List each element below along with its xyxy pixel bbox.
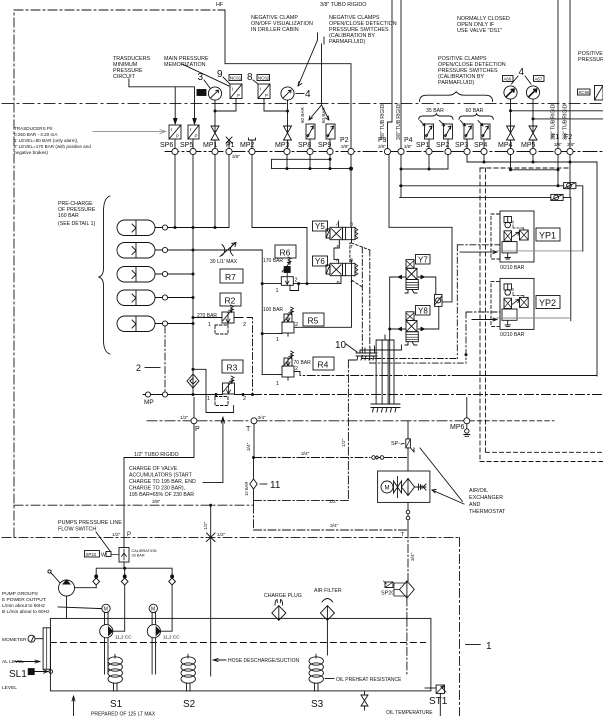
svg-text:PREPARED OF 125 LT MAX: PREPARED OF 125 LT MAX	[91, 712, 156, 716]
junction	[349, 167, 353, 171]
svg-text:3/4": 3/4"	[246, 442, 252, 451]
node crossing X	[207, 533, 216, 542]
svg-text:CHARGE TO 230 BAR),: CHARGE TO 230 BAR),	[129, 486, 185, 492]
node R7 label	[220, 269, 243, 283]
motor M2	[149, 604, 157, 613]
wire YP2 gray through-line	[497, 317, 571, 319]
node Y6 label	[313, 256, 328, 266]
junction	[192, 322, 195, 325]
wire R4 out to right long	[297, 372, 460, 376]
svg-text:SP5: SP5	[180, 142, 193, 149]
wire MP2 drop below	[251, 155, 253, 228]
svg-text:W: W	[101, 553, 106, 559]
wire solid segment to riser	[460, 375, 597, 377]
wire R7 line	[193, 249, 262, 251]
valve MP4 shutoff	[507, 126, 515, 148]
wire Y6 T stub	[351, 276, 353, 280]
svg-text:AIR FILTER: AIR FILTER	[314, 588, 342, 594]
node Y5 label	[313, 221, 328, 231]
svg-text:1: 1	[208, 322, 211, 328]
svg-text:P1: P1	[226, 142, 235, 149]
node tank circle	[49, 670, 53, 674]
svg-text:PUMPS PRESSURE LINE: PUMPS PRESSURE LINE	[58, 520, 122, 526]
node CALIBRATION text	[132, 549, 157, 558]
valve YP2 block	[491, 278, 534, 329]
junction	[174, 226, 177, 229]
svg-text:SP20: SP20	[381, 591, 394, 597]
node SP- component	[406, 439, 411, 448]
wire collector C y169.8	[511, 155, 559, 186]
node MP2 tap	[249, 138, 256, 148]
wire R7 down riser	[261, 250, 263, 375]
junction	[465, 353, 468, 356]
pressure switch SP8	[306, 124, 315, 139]
node PUMP GROUPS text	[2, 591, 50, 615]
wire Y5 P T stubs	[339, 240, 351, 243]
svg-text:R7: R7	[225, 272, 236, 282]
wire riser P3	[388, 0, 393, 148]
svg-text:I: I	[260, 87, 261, 92]
svg-text:Y8: Y8	[418, 306, 428, 315]
node Y6 ports	[336, 258, 353, 287]
svg-text:11: 11	[270, 480, 281, 491]
node MP4	[507, 148, 513, 154]
junction	[388, 328, 391, 331]
wire R2 out dashdot down	[247, 318, 253, 395]
wire leader 2	[145, 367, 160, 369]
wire NEG visualization leaders	[298, 33, 324, 86]
svg-text:S2: S2	[183, 699, 196, 710]
wire leader	[325, 678, 334, 680]
svg-text:I: I	[190, 127, 191, 132]
junction	[242, 393, 245, 396]
wire leader arrow up	[203, 417, 225, 483]
junction	[400, 168, 403, 171]
svg-text:OIL TEMPERATURE: OIL TEMPERATURE	[386, 710, 433, 716]
node CHARGE OF VALVE text	[129, 466, 196, 498]
wire exchanger outlet down	[407, 502, 409, 530]
svg-text:I: I	[171, 127, 172, 132]
junction	[297, 282, 300, 285]
svg-text:P: P	[265, 93, 268, 98]
svg-text:3/8": 3/8"	[404, 144, 412, 149]
charge plug	[272, 600, 286, 621]
svg-text:OIL PREHEAT RESISTANCE: OIL PREHEAT RESISTANCE	[336, 677, 402, 683]
wire MP2 jog	[306, 228, 308, 284]
junction	[261, 282, 264, 285]
svg-text:8: 8	[247, 72, 253, 83]
valve YP1 block	[491, 211, 534, 262]
wire	[578, 51, 603, 63]
wire MP6	[466, 398, 468, 418]
check valve to YP1	[564, 183, 576, 189]
svg-text:SC66: SC66	[579, 90, 591, 95]
svg-text:E POWER OUTPUT:: E POWER OUTPUT:	[2, 597, 47, 603]
wire leader 11	[260, 483, 267, 485]
wire ST1 down	[439, 693, 441, 716]
svg-text:MOMETER: MOMETER	[2, 637, 27, 643]
component tank	[50, 618, 431, 691]
wire SP6 drop below	[174, 155, 176, 228]
pump 2	[147, 613, 180, 640]
svg-text:R4: R4	[318, 360, 329, 370]
air filter	[320, 599, 334, 656]
svg-text:MP6: MP6	[450, 424, 465, 431]
junction	[509, 109, 512, 112]
heater coil S2	[181, 654, 195, 691]
junction	[192, 368, 195, 371]
wire right riser to y376	[596, 162, 598, 376]
svg-text:S3: S3	[311, 699, 324, 710]
svg-text:CALIBRATION: CALIBRATION	[132, 549, 157, 553]
wire pump suctions	[105, 638, 156, 674]
svg-text:FLOW SWITCH: FLOW SWITCH	[58, 527, 96, 533]
wire sp leader	[401, 443, 404, 446]
svg-text:60 BAR: 60 BAR	[300, 106, 305, 123]
wire riser P4	[400, 0, 402, 148]
wire PT line	[147, 420, 464, 422]
transducer right I/P	[595, 86, 603, 101]
node SP1	[426, 148, 432, 154]
svg-text:B L/min about to 60Hz: B L/min about to 60Hz	[2, 609, 50, 615]
wire brace 60	[459, 114, 493, 120]
transducer SP6	[169, 125, 181, 139]
valve Y5	[326, 227, 358, 239]
wire Y5T jog to pilot	[352, 243, 370, 250]
node YP1 label	[536, 228, 560, 241]
port circles on bus	[172, 148, 573, 154]
wire check3 to pump2	[161, 585, 173, 631]
wire dashed detail box outer	[480, 168, 603, 462]
wire leader 9	[223, 77, 230, 84]
wire leader	[15, 660, 40, 663]
wire SP1 SP2 to P4 net	[429, 155, 448, 169]
wire down to exchanger	[408, 448, 414, 471]
wire P drop from above	[124, 398, 194, 548]
motor M1	[102, 604, 110, 613]
svg-text:P: P	[195, 426, 200, 433]
svg-text:1: 1	[276, 381, 279, 387]
wire	[225, 10, 351, 148]
svg-text:L/min about to 50Hz: L/min about to 50Hz	[2, 603, 46, 609]
svg-text:AIR/OIL: AIR/OIL	[469, 488, 488, 494]
node SP8	[307, 148, 313, 154]
wire SP3 SP4 F2 drops below	[467, 155, 570, 198]
svg-text:SP-: SP-	[391, 441, 400, 447]
wire leader 4	[296, 93, 304, 95]
svg-text:33 BAR: 33 BAR	[132, 554, 145, 558]
node P2	[348, 148, 354, 154]
wire	[251, 15, 313, 33]
svg-text:P: P	[337, 280, 340, 286]
svg-text:HOSE DESCHARGE/SUCTION: HOSE DESCHARGE/SUCTION	[228, 658, 300, 664]
svg-text:R3: R3	[227, 363, 238, 373]
svg-text:170 BAR: 170 BAR	[263, 258, 283, 264]
wire brace 35	[419, 114, 453, 120]
relief valve R6	[281, 257, 298, 291]
svg-text:270 BAR: 270 BAR	[197, 313, 217, 319]
svg-text:USE VALVE "DS1": USE VALVE "DS1"	[457, 28, 502, 34]
node SP5	[190, 148, 196, 154]
junction	[400, 184, 403, 187]
wire POSITIVE CLAMPS big brace	[420, 92, 493, 102]
wire SP8 SP9 drops	[310, 139, 330, 148]
transducer NC61 I/P	[230, 84, 242, 99]
wire row1 link	[175, 227, 307, 229]
wire YP2 left pilots	[466, 312, 500, 363]
svg-text:2: 2	[243, 322, 246, 328]
wire split to SP8 SP9	[309, 44, 329, 120]
wire gray leader from TRASDUCERS P/I	[93, 130, 166, 134]
svg-text:60 BAR: 60 BAR	[466, 108, 484, 114]
node R4 label	[313, 357, 334, 370]
node Y7 label	[416, 255, 431, 265]
wire arrowheads	[174, 119, 197, 125]
junction	[251, 393, 254, 396]
wire drain risers to manifold2	[376, 335, 394, 404]
svg-text:1/2": 1/2"	[217, 532, 226, 538]
svg-text:30 L/1' MAX: 30 L/1' MAX	[210, 259, 238, 265]
svg-text:F2: F2	[564, 134, 572, 141]
svg-text:PUMP GROUPS: PUMP GROUPS	[2, 591, 38, 597]
gauge 4	[281, 87, 294, 100]
svg-text:60 BAR: 60 BAR	[321, 106, 326, 123]
svg-text:SP2: SP2	[436, 142, 449, 149]
wire pilot dashdot vertical a	[362, 247, 457, 359]
node R5 label	[303, 313, 324, 326]
svg-text:SP3: SP3	[455, 142, 468, 149]
svg-text:YP1: YP1	[539, 231, 556, 241]
wire	[329, 15, 397, 45]
svg-text:2: 2	[295, 278, 298, 284]
svg-text:3/8" TUBO RIGIDO: 3/8" TUBO RIGIDO	[320, 2, 366, 8]
svg-text:1/2": 1/2"	[180, 415, 189, 421]
svg-text:3/8" TUB RIGIDI: 3/8" TUB RIGIDI	[396, 103, 402, 140]
node R6 label	[275, 245, 296, 258]
svg-text:YP2: YP2	[539, 298, 556, 308]
wire gauge3 drop + link	[215, 99, 236, 127]
junction	[532, 161, 535, 164]
svg-text:3/4": 3/4"	[258, 415, 267, 421]
wire brace	[99, 196, 111, 354]
valve MP5 shutoff	[529, 126, 537, 148]
wire 1/2 drop from manifold area	[254, 360, 357, 501]
wire leader to M	[58, 607, 102, 609]
svg-text:1: 1	[276, 337, 279, 343]
junction	[209, 504, 212, 507]
svg-text:B: B	[350, 222, 353, 228]
wire	[2, 103, 603, 105]
junction	[192, 226, 195, 229]
wire gauge4 drop + NC62 link	[264, 99, 288, 127]
svg-text:160 BAR: 160 BAR	[58, 213, 79, 219]
manifold 2	[371, 404, 400, 412]
wire	[14, 504, 254, 506]
svg-text:IN DRILLER CABIN: IN DRILLER CABIN	[251, 27, 299, 33]
svg-text:I: I	[232, 87, 233, 92]
svg-text:LEVEL: LEVEL	[2, 685, 17, 691]
wire	[459, 537, 461, 716]
wire leader memorization	[182, 64, 229, 86]
svg-text:T: T	[350, 244, 353, 250]
svg-text:3/4": 3/4"	[410, 552, 416, 561]
valve MP3 shutoff	[284, 126, 292, 148]
svg-text:3/8": 3/8"	[378, 144, 386, 149]
wire P4 drop below	[400, 155, 448, 198]
junction	[261, 332, 264, 335]
wire filter to tank	[406, 598, 408, 674]
wire R5 in	[262, 333, 282, 335]
svg-text:1: 1	[276, 288, 279, 294]
svg-text:4: 4	[305, 89, 311, 100]
node R2 label	[220, 293, 241, 306]
node T circle	[251, 418, 257, 424]
svg-text:1: 1	[486, 641, 492, 652]
wire leader 1	[466, 644, 481, 646]
svg-text:3/8": 3/8"	[554, 142, 562, 147]
check valve pump2	[121, 574, 128, 585]
wire R2 in	[193, 317, 214, 319]
svg-text:P2: P2	[340, 137, 349, 144]
port labels	[160, 134, 572, 149]
svg-text:CHARGE OF VALVE: CHARGE OF VALVE	[129, 466, 178, 472]
svg-text:SL1: SL1	[9, 669, 27, 680]
svg-text:AL LEVEL: AL LEVEL	[2, 659, 24, 665]
valve Y8	[398, 312, 425, 345]
svg-text:R5: R5	[308, 316, 319, 326]
wire oil level dashed	[50, 642, 425, 644]
svg-text:A66: A66	[504, 77, 512, 82]
node SP4	[481, 148, 487, 154]
svg-text:M: M	[104, 607, 108, 613]
svg-text:3/8" TUB RIGIDI: 3/8" TUB RIGIDI	[380, 103, 386, 140]
wire dashed top	[480, 167, 570, 169]
node outlet circles	[406, 510, 410, 514]
wire 3/4 return line	[254, 505, 409, 530]
node SC66 box	[578, 89, 591, 95]
flow switch SP22	[85, 548, 130, 563]
thermometer	[2, 635, 43, 643]
wire T junction	[407, 530, 409, 582]
svg-text:10 BAR: 10 BAR	[244, 482, 249, 496]
wire P1 drop below	[228, 155, 230, 228]
svg-text:TRASDUCERS P/I: TRASDUCERS P/I	[14, 126, 53, 131]
wire MP line	[168, 394, 253, 396]
level gauge	[43, 628, 50, 669]
wire Y6 B stub	[351, 260, 353, 263]
svg-text:F1: F1	[551, 134, 559, 141]
wire leader 10	[346, 344, 357, 352]
node YP2 label	[536, 296, 560, 309]
junction	[215, 393, 218, 396]
item 11 diamond	[250, 479, 257, 505]
wire P2 drop below	[350, 155, 352, 228]
node P1	[226, 148, 232, 154]
svg-text:SP4: SP4	[474, 142, 487, 149]
wire drop from PT line	[407, 421, 409, 439]
wire SP9 drop below	[329, 155, 331, 169]
junction	[214, 226, 217, 229]
node SP2	[445, 148, 451, 154]
svg-text:NC61: NC61	[230, 76, 242, 81]
svg-text:4: 4	[519, 67, 525, 78]
svg-text:P: P	[127, 532, 131, 538]
transducer NC62 I/P	[258, 84, 270, 99]
wire	[14, 126, 91, 155]
wire SP5 drop	[192, 139, 194, 148]
svg-text:3/8": 3/8"	[152, 499, 161, 505]
relief valve R4	[278, 351, 297, 380]
node MP circles	[145, 392, 150, 397]
svg-text:PARMAFLUID): PARMAFLUID)	[329, 39, 365, 45]
wire pilot dashdot vertical b	[370, 250, 466, 363]
check valve diamond on SP5 riser	[187, 374, 199, 388]
accumulator 4	[117, 290, 193, 306]
junction	[192, 249, 195, 252]
manifold 10	[356, 346, 377, 360]
junction	[252, 456, 255, 459]
wire tank to ST1	[425, 687, 436, 689]
node NC62 box	[257, 75, 270, 81]
junction	[483, 161, 486, 164]
relief valve R3	[215, 376, 235, 406]
svg-text:CHARGE TO 195 BAR, END: CHARGE TO 195 BAR, END	[129, 479, 196, 485]
quick coupler	[372, 456, 384, 460]
svg-text:0/210 BAR: 0/210 BAR	[500, 265, 525, 271]
svg-text:10: 10	[335, 340, 347, 351]
svg-text:B64: B64	[198, 90, 206, 95]
wire	[457, 16, 510, 34]
wire hose arrow	[213, 659, 226, 662]
svg-text:2' LEVEL=170 BAR (with positiv: 2' LEVEL=170 BAR (with positive and	[14, 144, 91, 149]
wire	[14, 10, 225, 537]
wire bracket to transducers	[129, 79, 195, 120]
svg-text:9: 9	[217, 69, 223, 80]
pressure switch SP3	[464, 124, 473, 139]
node F1	[555, 148, 561, 154]
accumulator 1	[117, 220, 175, 236]
wire SP1-4 drops	[429, 139, 484, 148]
wire YP1 gray through-line	[497, 250, 583, 252]
svg-text:P: P	[195, 134, 198, 139]
node P1 plug X	[226, 137, 232, 148]
junction	[509, 168, 512, 171]
valve MP1 shutoff	[211, 126, 219, 148]
svg-text:HF: HF	[216, 2, 224, 8]
SP20 filter	[384, 581, 415, 598]
node MP1	[212, 148, 218, 154]
svg-text:A67: A67	[535, 77, 543, 82]
gauge 3	[208, 87, 221, 100]
junction	[428, 168, 431, 171]
wire arrows into SP3 SP4	[460, 121, 483, 126]
node NC61 box	[229, 75, 242, 81]
svg-text:1/2": 1/2"	[203, 521, 209, 530]
svg-text:(SEE DETAIL 1): (SEE DETAIL 1)	[58, 221, 95, 227]
svg-text:3/4": 3/4"	[301, 451, 310, 457]
svg-text:MP: MP	[144, 399, 154, 406]
wire hose inside tank	[210, 618, 212, 676]
svg-text:S1: S1	[110, 699, 123, 710]
junction	[557, 184, 560, 187]
accumulator 3	[117, 267, 193, 283]
svg-text:35 BAR: 35 BAR	[426, 108, 444, 114]
svg-text:ST1: ST1	[429, 696, 448, 707]
node AIR/OIL text	[469, 488, 506, 515]
wire leader 3	[204, 80, 210, 88]
svg-text:3/4": 3/4"	[330, 523, 339, 529]
wire R3 bypass loop	[193, 369, 234, 412]
